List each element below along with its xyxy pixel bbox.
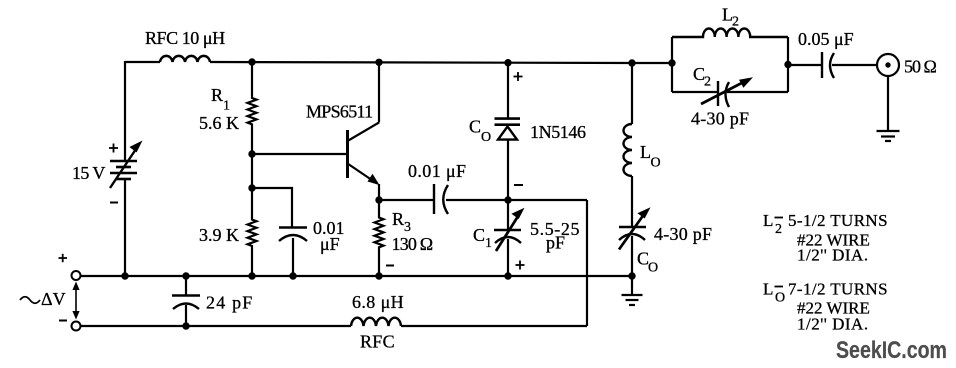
capacitor CO 4-30 pF variable — [619, 207, 712, 276]
terminal input minus — [59, 321, 81, 331]
svg-text:C: C — [473, 225, 485, 245]
svg-text:2: 2 — [704, 75, 711, 90]
terminal input plus — [59, 254, 81, 280]
wire LO to CO cap — [631, 176, 633, 226]
inductor RFC 6.8 uH — [351, 292, 404, 352]
inductor L2 — [672, 5, 788, 38]
svg-text:130 Ω: 130 Ω — [392, 234, 433, 254]
svg-text:24 pF: 24 pF — [206, 293, 254, 313]
resistor R3 130 ohm — [375, 200, 433, 276]
wire collector up to rail — [378, 62, 380, 123]
svg-text:3: 3 — [404, 220, 411, 235]
wire tank box left edge — [671, 37, 673, 92]
svg-text:O: O — [775, 291, 785, 306]
svg-text:pF: pF — [546, 233, 565, 253]
capacitor 0.05 uF — [798, 29, 854, 78]
ground below CO — [622, 276, 643, 305]
svg-text:RFC: RFC — [360, 332, 395, 352]
ground below connector — [877, 76, 900, 141]
node junction bottom rail 24pF — [182, 272, 189, 279]
note L2 winding spec — [763, 211, 888, 265]
wire tank box right edge — [787, 37, 789, 92]
wire R1 junction down to bypass tap — [251, 154, 253, 188]
wire bottom rail — [81, 275, 633, 277]
svg-text:4-30 pF: 4-30 pF — [654, 224, 712, 244]
svg-text:ΔV: ΔV — [41, 289, 66, 309]
node junction top rail R1 — [248, 58, 255, 65]
svg-text:5.6 K: 5.6 K — [199, 113, 239, 133]
wire base — [252, 153, 346, 155]
node junction tank right — [784, 61, 791, 68]
node junction top rail collector — [375, 59, 382, 66]
svg-text:1/2'' DIA.: 1/2'' DIA. — [797, 246, 869, 265]
node junction top rail LO — [628, 59, 635, 66]
svg-text:1/2'' DIA.: 1/2'' DIA. — [797, 315, 869, 334]
svg-text:SeekIC.com: SeekIC.com — [836, 336, 947, 363]
connector J1 50 ohm — [877, 54, 937, 77]
varactor diode CO 1N5146 — [469, 117, 586, 201]
battery 15 V variable — [72, 141, 143, 203]
wire output cap to connector — [832, 64, 877, 66]
capacitor coupling 0.01 uF — [379, 161, 508, 214]
wire top rail left of RFC — [125, 61, 160, 63]
svg-text:6.8 μH: 6.8 μH — [352, 292, 404, 312]
node junction bottom rail R3 — [375, 272, 382, 279]
capacitor C1 5.5-25 pF variable — [473, 200, 580, 276]
node junction bottom rail battery — [121, 272, 128, 279]
svg-text:R: R — [392, 209, 404, 229]
wire left vertical from rail to battery — [124, 61, 126, 161]
resistor R1 5.6 K — [199, 62, 257, 154]
svg-text:L: L — [763, 211, 773, 230]
svg-text:O: O — [481, 130, 491, 145]
note LO winding spec — [763, 280, 888, 334]
node junction bypass tap — [248, 184, 255, 191]
resistor 3.9 K — [199, 188, 257, 276]
svg-text:15 V: 15 V — [72, 163, 105, 183]
node junction bottom rail 3.9K — [248, 272, 255, 279]
node junction tank left — [668, 59, 675, 66]
wire top rail RFC to tank — [210, 62, 672, 63]
node junction bottom rail ground — [628, 272, 635, 279]
capacitor 24 pF — [172, 276, 254, 326]
inductor LO — [624, 124, 661, 176]
svg-text:0.01 μF: 0.01 μF — [408, 161, 466, 181]
svg-text:1N5146: 1N5146 — [530, 122, 586, 142]
watermark SeekIC.com — [836, 336, 947, 363]
node plus sign varactor top — [514, 72, 523, 81]
node junction middle row varactor/C1 — [504, 196, 511, 203]
wire tank to output cap — [788, 64, 821, 66]
node junction bottom rail bypass — [289, 272, 296, 279]
svg-text:0.05 μF: 0.05 μF — [798, 29, 854, 49]
wire LO column top — [631, 63, 633, 124]
wire bottom minus rail left — [81, 325, 352, 327]
svg-text:MPS6511: MPS6511 — [306, 102, 372, 122]
svg-text:RFC 10 μH: RFC 10 μH — [145, 28, 225, 48]
wire bottom minus rail right — [401, 325, 587, 327]
node junction bottom wire 24pF — [182, 322, 189, 329]
wire emitter down — [378, 184, 380, 200]
svg-text:5-1/2 TURNS: 5-1/2 TURNS — [788, 211, 888, 230]
capacitor C2 4-30 pF variable — [672, 64, 788, 129]
svg-text:3.9 K: 3.9 K — [199, 225, 239, 245]
svg-text:1: 1 — [485, 236, 492, 251]
svg-text:4-30 pF: 4-30 pF — [691, 109, 749, 129]
svg-text:O: O — [648, 261, 658, 276]
node junction top rail varactor — [504, 59, 511, 66]
svg-text:O: O — [651, 156, 661, 171]
svg-text:L: L — [763, 280, 773, 299]
svg-text:μF: μF — [320, 234, 340, 254]
wire middle row to right vertical — [508, 199, 587, 201]
inductor RFC 10 uH — [145, 28, 225, 62]
wire varactor column top — [507, 63, 509, 119]
svg-text:7-1/2 TURNS: 7-1/2 TURNS — [788, 280, 888, 299]
svg-text:2: 2 — [732, 15, 739, 30]
node deltaV source arrows — [20, 282, 80, 320]
node junction bottom rail C1 — [504, 272, 511, 279]
transistor Q1 MPS6511 — [306, 102, 380, 186]
capacitor bypass 0.01 uF — [252, 188, 345, 276]
wire left vertical battery to bottom rail — [124, 179, 126, 276]
node junction emitter — [375, 196, 382, 203]
svg-text:1: 1 — [223, 99, 230, 114]
svg-text:50 Ω: 50 Ω — [904, 57, 937, 77]
svg-text:R: R — [211, 85, 223, 105]
svg-text:L: L — [640, 142, 651, 162]
svg-text:C: C — [469, 117, 481, 137]
node junction base — [248, 150, 255, 157]
svg-text:2: 2 — [775, 222, 782, 237]
wire right vertical feedback — [586, 200, 588, 326]
